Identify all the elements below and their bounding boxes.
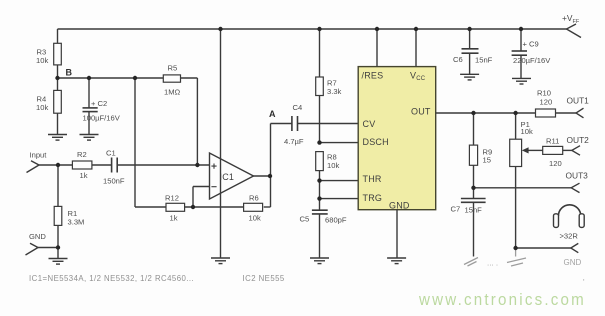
IC U2 NE555 body (358, 67, 436, 210)
svg-text:GND: GND (29, 232, 46, 241)
capacitor C7 (461, 188, 486, 257)
svg-text:4.7µF: 4.7µF (284, 137, 304, 146)
svg-text:OUT1: OUT1 (567, 96, 590, 106)
svg-text:120: 120 (540, 98, 553, 107)
terminal OUT3 (571, 183, 579, 192)
svg-text:IC2 NE555: IC2 NE555 (243, 274, 285, 283)
svg-text:DSCH: DSCH (363, 137, 389, 147)
wire R5 to noninverting input (196, 78, 198, 165)
wire THR (320, 180, 359, 182)
svg-text:OUT3: OUT3 (566, 171, 589, 181)
svg-text:100µF/16V: 100µF/16V (83, 114, 121, 123)
terminal OUT2 (572, 146, 580, 156)
ground under IC2 (387, 258, 406, 264)
svg-text:+ C9: + C9 (523, 40, 539, 49)
wire op-amp power (220, 29, 222, 258)
headphone icon (554, 205, 585, 228)
resistor R7 (316, 29, 324, 143)
ground under R4 (48, 135, 67, 141)
svg-text:R12: R12 (165, 194, 179, 203)
wire Vcc to rail (415, 29, 417, 67)
ground under C7 faded (464, 258, 478, 267)
capacitor C1 (112, 158, 210, 173)
capacitor C9 (512, 29, 527, 78)
op-amp minus symbol (211, 186, 216, 188)
wire inverting input (193, 187, 210, 208)
svg-text:3.3M: 3.3M (68, 218, 85, 227)
svg-text:A: A (269, 109, 276, 119)
svg-text:OUT: OUT (411, 107, 431, 117)
resistor R8 (316, 152, 324, 199)
wire bottom right to GND terminal (516, 247, 571, 249)
capacitor C2 (83, 78, 98, 135)
terminal GND input (26, 243, 59, 255)
svg-text:+ C2: + C2 (91, 99, 107, 108)
svg-text:C7: C7 (451, 205, 461, 214)
svg-text:15nF: 15nF (475, 56, 493, 65)
svg-text:R10: R10 (537, 89, 551, 98)
resistor R6 (244, 203, 271, 211)
resistor R3 (54, 29, 62, 78)
svg-text:C1: C1 (106, 149, 116, 158)
svg-text:Input: Input (30, 151, 48, 160)
svg-text:10k: 10k (36, 103, 48, 112)
svg-text:B: B (66, 68, 73, 78)
wire TRG (320, 198, 359, 200)
svg-text:220µF/16V: 220µF/16V (513, 56, 551, 65)
wire OUT3 (474, 187, 572, 189)
svg-text:IC1=NE5534A, 1/2 NE5532, 1/2 R: IC1=NE5534A, 1/2 NE5532, 1/2 RC4560... (29, 274, 194, 283)
svg-text:... .: ... . (487, 259, 498, 268)
svg-text:TRG: TRG (363, 193, 383, 203)
svg-text:3.3k: 3.3k (327, 87, 342, 96)
svg-text:15nF: 15nF (465, 206, 483, 215)
resistor R1 (54, 165, 62, 259)
svg-text:www.cntronics.com: www.cntronics.com (418, 291, 586, 309)
resistor R9 (469, 113, 477, 188)
svg-text:R2: R2 (77, 150, 87, 159)
terminal +V supply (567, 24, 582, 38)
svg-text:>32R: >32R (560, 232, 579, 241)
svg-text:120: 120 (549, 159, 562, 168)
op-amp IC1 (210, 153, 254, 199)
svg-text:10k: 10k (327, 161, 339, 170)
svg-text:10k: 10k (36, 56, 48, 65)
svg-text:CV: CV (363, 119, 376, 129)
wire OUT rail (436, 112, 536, 114)
svg-text:C4: C4 (293, 103, 303, 112)
svg-text:GND: GND (564, 258, 582, 267)
terminal Input (27, 161, 73, 173)
capacitor C6 (462, 29, 479, 74)
resistor R10 (536, 109, 577, 117)
resistor R11 (543, 146, 572, 154)
wire IC2 GND pin (396, 210, 398, 258)
ground under op-amp (211, 258, 230, 264)
potentiometer P1 (510, 113, 522, 248)
op-amp plus symbol (211, 164, 216, 169)
svg-text:OUT2: OUT2 (567, 135, 590, 145)
wire node B horizontal (58, 77, 164, 79)
capacitor C4 (292, 116, 358, 131)
svg-text:1k: 1k (170, 214, 178, 223)
svg-text:R6: R6 (249, 194, 259, 203)
wire output to node A (254, 124, 292, 208)
svg-text:15: 15 (483, 156, 491, 165)
svg-text:1k: 1k (80, 171, 88, 180)
terminal GND right (571, 243, 579, 252)
terminal OUT1 (576, 108, 584, 118)
svg-text:680pF: 680pF (325, 216, 347, 225)
svg-text:C5: C5 (300, 215, 310, 224)
svg-text:10k: 10k (249, 214, 261, 223)
ground under P1 faded (507, 248, 526, 266)
resistor R12 (166, 203, 244, 211)
svg-text:150nF: 150nF (103, 177, 125, 186)
wire node B to R12 (135, 78, 166, 207)
svg-text:C6: C6 (453, 55, 463, 64)
resistor R2 (72, 161, 111, 169)
svg-text:R11: R11 (546, 137, 559, 146)
wire DSCH (320, 142, 359, 144)
wire /RES to rail (376, 29, 378, 67)
svg-text:R5: R5 (168, 64, 178, 73)
svg-text:/RES: /RES (362, 71, 384, 81)
svg-text:1MΩ: 1MΩ (164, 88, 181, 97)
ground under C6 (460, 74, 479, 80)
svg-text:IC1: IC1 (220, 172, 235, 182)
wiper arrow P1 (522, 147, 543, 153)
svg-text:10k: 10k (521, 127, 533, 136)
resistor R4 (54, 78, 62, 135)
ground under R1 (49, 259, 68, 265)
ground under C9 (512, 78, 531, 84)
ground under C2 (80, 135, 99, 141)
resistor R5 (163, 75, 197, 82)
svg-text:THR: THR (363, 174, 382, 184)
svg-text:GND: GND (389, 201, 410, 211)
capacitor C5 (312, 199, 328, 258)
wire top supply rail (58, 28, 567, 30)
ground under C5 (310, 258, 329, 264)
